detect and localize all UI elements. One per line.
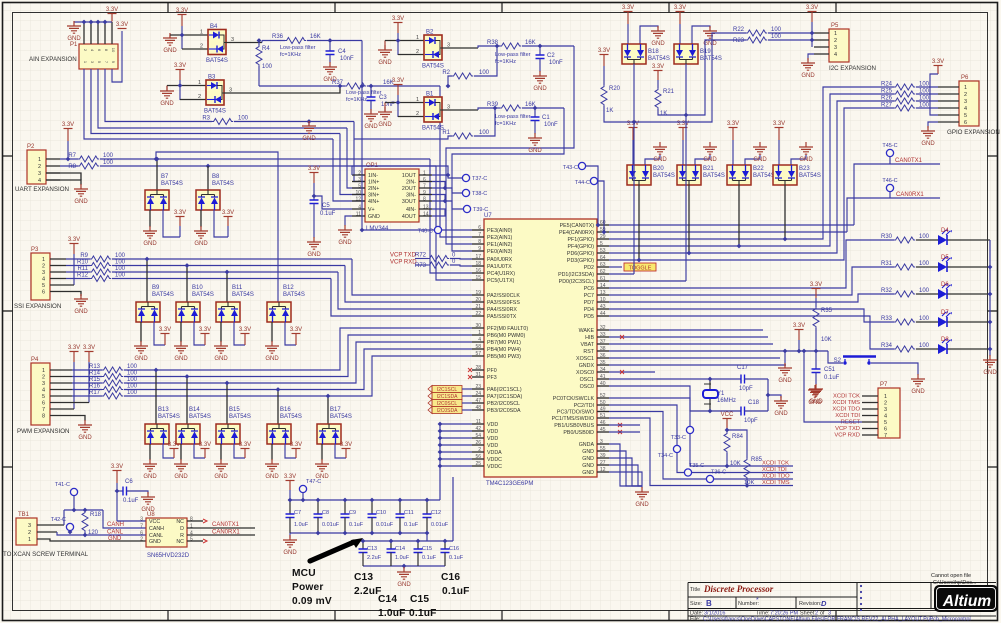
led D4 [938,228,952,245]
wire [344,518,346,534]
junction [687,251,692,256]
wire AIN1 bus [98,69,347,128]
ground [533,71,547,83]
wire B16 top pin [277,390,279,425]
svg-text:24: 24 [475,391,481,397]
svg-text:PC4(U1RX): PC4(U1RX) [487,271,515,277]
svg-text:GND: GND [753,157,767,163]
svg-text:6: 6 [42,401,45,407]
svg-text:R33: R33 [881,316,893,322]
diode B14 BAT54S [176,424,200,444]
svg-text:10pF: 10pF [739,386,753,392]
svg-text:100: 100 [127,384,138,390]
resistor R15 [102,380,123,386]
ground [74,294,88,306]
capacitor C13 [359,549,368,553]
diode B15 BAT54S [216,424,240,444]
svg-text:P6: P6 [961,75,969,81]
ground [141,492,155,504]
svg-text:GND: GND [921,141,935,147]
wire 3.3V stem B7 [179,217,181,226]
svg-text:R1: R1 [442,130,450,136]
svg-text:I2C0SDA: I2C0SDA [437,408,459,414]
wire C4 stem [329,41,331,52]
svg-text:SSI EXPANSION: SSI EXPANSION [14,303,61,310]
wire 3.3V net B22 [732,140,734,165]
wire 3.3V stem B13 [173,449,175,458]
svg-text:2: 2 [198,94,201,100]
svg-text:R8: R8 [68,164,76,170]
svg-text:GPIO EXPANSION: GPIO EXPANSION [947,129,1000,136]
svg-text:B18: B18 [648,49,659,55]
ground [160,86,174,98]
svg-text:R2: R2 [442,70,450,76]
svg-text:21: 21 [475,304,481,310]
wire 3.3V net C6 [116,483,118,521]
pin 1 PB6(M0 PWM0) [472,334,484,336]
svg-text:GND: GND [283,550,297,556]
diode B7 BAT54S [145,174,183,210]
resistor R37 [345,83,366,89]
diode B21 BAT54S [677,165,725,185]
svg-text:3.3V: 3.3V [284,474,296,480]
wire SSI CLK row [112,258,352,260]
junction [257,38,262,43]
capacitor C9 [341,514,350,518]
wire P7 pin [862,408,878,410]
wire B20 bottom pin [638,185,640,260]
wire 3.3V net P4b [88,362,90,403]
svg-text:GND: GND [799,157,813,163]
svg-text:2: 2 [964,92,967,98]
junction [416,539,421,544]
svg-text:PC3/TDO/SWO: PC3/TDO/SWO [557,410,594,416]
svg-text:3.3V: 3.3V [176,8,188,14]
wire [66,265,90,267]
test point T36-C [706,475,713,482]
svg-text:6: 6 [42,290,45,296]
wire 3.3V stem B8 [227,217,229,226]
wire B20 gnd elbow [645,155,660,165]
svg-text:3.3V: 3.3V [159,327,171,333]
wire gnd stem B4 [169,35,171,38]
pin 46 PB1/USB0VBUS [597,424,609,426]
wire B11 3.3V pin [234,322,245,345]
wire cap rail top [288,499,440,501]
junction [343,531,348,536]
svg-text:53: 53 [600,248,606,254]
svg-text:1: 1 [200,30,203,36]
svg-text:2IN+: 2IN+ [368,186,379,192]
svg-text:100: 100 [771,34,782,40]
svg-text:BAT54S: BAT54S [648,56,670,62]
svg-text:4: 4 [478,337,481,343]
svg-text:R23: R23 [733,38,745,44]
wire B13 gnd pin [149,444,151,460]
junction [438,436,443,441]
svg-text:61: 61 [600,276,606,282]
wire OP1 left pin [352,200,365,202]
ground [635,487,649,499]
svg-text:B15: B15 [229,407,240,413]
pin 38 RST [597,350,609,352]
diode B22 BAT54S [727,165,775,185]
svg-text:Cannot open file: Cannot open file [931,573,971,579]
svg-text:R21: R21 [663,89,675,95]
svg-text:GND: GND [653,157,667,163]
wire P4 pin [50,382,72,384]
svg-text:1: 1 [42,368,45,374]
diode B4 BAT54S [200,24,234,64]
svg-text:3.3V: 3.3V [174,210,186,216]
net label I2C0SCL [428,400,472,408]
svg-text:B3: B3 [208,75,216,81]
svg-text:22: 22 [475,311,481,317]
svg-text:T35-C: T35-C [689,463,704,469]
pin 17 PA0/U0RX [472,258,484,260]
wire 3.3V stem B17 [345,449,347,458]
svg-text:GND: GND [214,356,228,362]
junction [725,428,730,433]
svg-text:CAN0RX1: CAN0RX1 [212,530,240,536]
pin 10 PD7 [597,301,609,303]
resistor R32 [894,291,915,297]
svg-text:PA7(I2C1SDA): PA7(I2C1SDA) [487,394,522,400]
wire [478,108,500,110]
wire OSC0 row [609,386,741,411]
wire 3.3V net B18 [627,24,629,44]
svg-text:GND: GND [533,86,547,92]
diode B13 BAT54S [145,424,169,444]
svg-text:VCP TXD: VCP TXD [390,253,416,259]
no-ERC marker [468,375,472,379]
capacitor C14 [387,549,396,553]
wire MCU gnd12 [609,472,642,488]
svg-text:R39: R39 [487,102,499,108]
svg-text:45: 45 [600,427,606,433]
wire R72 to PA0 [450,258,472,261]
svg-text:5: 5 [42,394,45,400]
wire to MCU PA4 [338,272,472,309]
wire B4 pin1 [170,34,208,36]
wire TB1 pin3 [37,524,64,526]
svg-text:0.01uF: 0.01uF [376,522,394,528]
resistor R26 [894,98,915,104]
svg-text:PE4(CAN0RX): PE4(CAN0RX) [559,230,594,236]
svg-text:0.1uF: 0.1uF [404,522,419,528]
svg-text:100: 100 [919,261,930,267]
wire AIN0 node down [361,41,363,87]
wire 3.3V net B4 [181,26,183,49]
wire [426,518,428,534]
wire [317,518,319,534]
svg-text:0.1uF: 0.1uF [409,608,437,619]
svg-text:29: 29 [600,234,606,240]
wire LED cathode [948,348,991,350]
svg-text:3.3V: 3.3V [174,63,186,69]
resistor R35 [813,307,819,328]
svg-text:VDD: VDD [487,429,498,435]
svg-text:R85: R85 [751,457,763,463]
svg-text:3.3V: 3.3V [83,345,95,351]
wire MCU gnd [609,458,642,486]
resistor R85 [744,458,750,479]
svg-text:1IN+: 1IN+ [368,180,379,186]
wire LED feed [609,316,894,349]
svg-text:PF2(M0 FAULT0): PF2(M0 FAULT0) [487,326,528,332]
junction [115,489,120,494]
svg-text:100: 100 [479,70,490,76]
svg-text:3IN+: 3IN+ [368,193,379,199]
wire B23 bottom pin [784,185,786,239]
svg-text:0.1uF: 0.1uF [422,555,437,561]
wire 3.3V net B23 [778,140,780,165]
svg-text:PD7: PD7 [584,300,594,306]
wire B17 gnd pin [321,444,323,460]
wire to OP1 2IN+ [347,128,365,188]
pin 48 PB3/I2C0SDA [472,409,484,411]
svg-text:TOGGLE: TOGGLE [629,265,652,271]
no-ERC marker [618,430,622,434]
wire cap rail2 top [357,540,453,542]
svg-text:3: 3 [38,171,41,177]
svg-text:14: 14 [600,283,606,289]
svg-text:1.0uF: 1.0uF [395,555,410,561]
svg-text:PA4/SSI0RX: PA4/SSI0RX [487,307,517,313]
svg-text:NC: NC [176,539,184,545]
net label I2C1SDA [428,393,472,401]
wire B10 gnd pin [180,322,182,342]
svg-text:3.3V: 3.3V [773,121,785,127]
connector P3 SSI EXPANSION [14,247,61,310]
svg-text:PE3(AIN0): PE3(AIN0) [487,228,513,234]
wire T42 stub [69,531,71,532]
svg-text:R16: R16 [89,384,101,390]
wire P3 pin [50,258,66,260]
wire P6 pin [938,121,959,123]
svg-text:GND: GND [214,474,228,480]
capacitor C1 [531,117,540,121]
svg-text:Power: Power [292,582,324,593]
pin 14 PC6 [597,287,609,289]
svg-text:0.01uF: 0.01uF [322,522,340,528]
svg-text:19: 19 [475,290,481,296]
wire cap rail2 bottom [363,565,445,567]
wire B14 top pin [186,377,188,425]
wire 3.3V stem B3 [179,70,181,80]
svg-text:3.3V: 3.3V [392,78,404,84]
ground [307,237,321,249]
wire filtered AIN0 [307,40,362,42]
svg-text:GND: GND [774,411,788,417]
wire OP1 left pin [352,181,365,183]
junction [96,20,101,25]
ground [911,374,925,386]
wire VBAT [609,343,773,345]
wire CAN0RX1 net [847,198,940,232]
wire GPIO net [609,87,894,239]
wire JTAG net [609,418,793,486]
svg-text:GND: GND [74,309,88,315]
ground [323,62,337,74]
svg-text:8: 8 [42,414,45,420]
diode B19 BAT54S [674,44,722,64]
svg-text:3.3V: 3.3V [674,5,686,11]
junction [312,194,317,199]
junction [396,100,401,105]
wire B19 gnd elbow [692,26,710,44]
wire 3.3V net B3 [179,80,181,100]
wire to P6 [916,86,938,88]
wire to OP1 3IN+ [340,134,365,195]
svg-text:R31: R31 [881,261,893,267]
wire LED feed [609,267,894,295]
wire [371,500,373,514]
svg-text:D8: D8 [941,337,949,343]
svg-text:R25: R25 [881,89,893,95]
ground [163,33,177,45]
pin 30 PF2(M0 FAULT0) [472,327,484,329]
wire to LED [916,293,938,295]
junction [725,464,730,469]
wire OP1 right pin [419,215,432,217]
mcu U7 TM4C123GE6PM [484,213,597,487]
wire R2 to B2 [474,46,497,76]
wire 3.3V net B20 [632,140,634,165]
svg-text:12: 12 [600,467,606,473]
wire P1 top pin [83,22,85,44]
ground [143,226,157,238]
wire B7 3.3V pin [163,210,180,237]
svg-text:AIN EXPANSION: AIN EXPANSION [29,56,77,63]
wire PD1 [609,273,634,275]
test point T37-C [462,174,469,181]
svg-text:11: 11 [476,419,481,425]
svg-text:BAT54S: BAT54S [152,292,174,298]
junction [316,531,321,536]
junction [797,349,802,354]
svg-text:2: 2 [42,264,45,270]
svg-text:BAT54S: BAT54S [229,414,251,420]
svg-text:R15: R15 [89,377,101,383]
svg-text:PD1(I2C3SDA): PD1(I2C3SDA) [558,272,594,278]
svg-text:B23: B23 [799,166,810,172]
diode B23 BAT54S [773,165,821,185]
svg-text:MCU: MCU [292,568,316,579]
svg-text:BAT54S: BAT54S [280,414,302,420]
wire 4OUT feedback [432,209,445,216]
wire PE5 CAN0TX [609,224,854,226]
svg-text:C:\Users\francs\OneDrive\CAPST: C:\Users\francs\OneDrive\CAPSTONE\Altium… [703,617,971,623]
svg-text:BAT54S: BAT54S [232,292,254,298]
wire bus86 [259,85,345,87]
led D5 [938,255,952,272]
wire P1 top pin [90,22,92,44]
wire 3.3V stem B1 [397,85,399,95]
wire B8 top pin [207,166,209,190]
svg-text:PF1(GPIO): PF1(GPIO) [568,237,595,243]
svg-text:10nF: 10nF [340,56,354,62]
wire VCP RXD [415,264,428,266]
wire [390,553,392,567]
pin 19 PA2/SSI0CLK [472,294,484,296]
svg-text:BAT54S: BAT54S [206,58,228,64]
svg-text:R20: R20 [609,86,621,92]
svg-text:GND: GND [703,157,717,163]
ground [78,420,92,432]
ground [703,142,717,154]
wire P4 pin [50,376,72,378]
wire R84 bottom [726,453,728,466]
wire LED feed [609,309,894,322]
pin 18 PA1/U0TX [472,265,484,267]
ground [397,567,411,579]
connector P2 UART EXPANSION [15,144,69,193]
wire R23 to P5 [768,39,814,41]
wire R73 to PA1 [450,265,472,266]
wire B4 pin3 [226,42,262,44]
wire 3.3V stem B19 [679,12,681,24]
resistor R21 [655,88,661,109]
pin 33 HIB [597,336,609,338]
ground [808,385,822,397]
junction [632,120,637,125]
wire JTAG net [609,398,793,466]
ground [134,341,148,353]
svg-text:PE5(CAN0TX): PE5(CAN0TX) [560,223,595,229]
wire B11 gnd pin [220,322,222,342]
junction [389,539,394,544]
svg-text:CAN0TX1: CAN0TX1 [895,158,923,164]
wire AIN1 to MCU [440,86,472,237]
wire AIN0 node [361,175,363,230]
svg-text:18: 18 [475,261,481,267]
svg-text:C13: C13 [367,546,377,552]
svg-text:GND: GND [160,101,174,107]
svg-text:P1: P1 [70,42,78,48]
junction [396,38,401,43]
wire to P6 [916,100,938,102]
svg-text:1: 1 [964,85,967,91]
svg-text:PB1/USB0VBUS: PB1/USB0VBUS [554,423,594,429]
capacitor C16 [441,549,450,553]
svg-text:PD3(GPIO): PD3(GPIO) [567,258,594,264]
wire 3.3V stem B9 [164,334,166,345]
svg-text:1: 1 [42,257,45,263]
svg-text:3.3V: 3.3V [806,5,818,11]
wire B21 bottom pin [688,185,690,253]
svg-text:VDDC: VDDC [487,464,502,470]
capacitor C3 [367,97,376,101]
wire P6 pin [938,100,959,102]
svg-text:3.3V: 3.3V [932,59,944,65]
wire 3.3V stem C6 [116,471,118,483]
svg-text:SN65HVD232D: SN65HVD232D [147,553,190,559]
wire [344,500,346,514]
wire 3.3V stem P6 [937,66,939,74]
wire MCU gnd [609,465,642,486]
wire [72,395,102,397]
svg-text:XCDI TCK: XCDI TCK [833,394,860,400]
svg-text:100: 100 [103,153,114,159]
wire 3.3V stem B12 [295,334,297,345]
capacitor C18 [741,407,745,416]
ground [265,459,279,471]
wire [262,40,285,42]
wire to OP1 4IN+ [333,139,365,201]
svg-text:CAN0RX1: CAN0RX1 [896,192,924,198]
pin 27 GND [597,464,609,466]
